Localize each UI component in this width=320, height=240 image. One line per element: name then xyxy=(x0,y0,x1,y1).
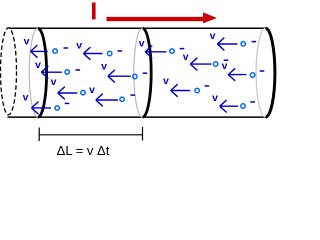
svg-text:v: v xyxy=(76,39,82,51)
svg-text:v: v xyxy=(163,75,169,87)
svg-text:v: v xyxy=(139,37,145,49)
svg-text:v: v xyxy=(35,59,41,71)
svg-text:v: v xyxy=(210,30,216,42)
svg-text:v: v xyxy=(89,84,95,96)
svg-text:v: v xyxy=(24,35,30,47)
svg-text:v: v xyxy=(222,60,228,72)
svg-text:v: v xyxy=(183,51,189,63)
svg-text:v: v xyxy=(51,76,57,88)
svg-text:v: v xyxy=(23,92,29,104)
svg-text:ΔL = v Δt: ΔL = v Δt xyxy=(57,143,110,158)
svg-text:v: v xyxy=(212,92,218,104)
svg-text:v: v xyxy=(101,61,107,73)
